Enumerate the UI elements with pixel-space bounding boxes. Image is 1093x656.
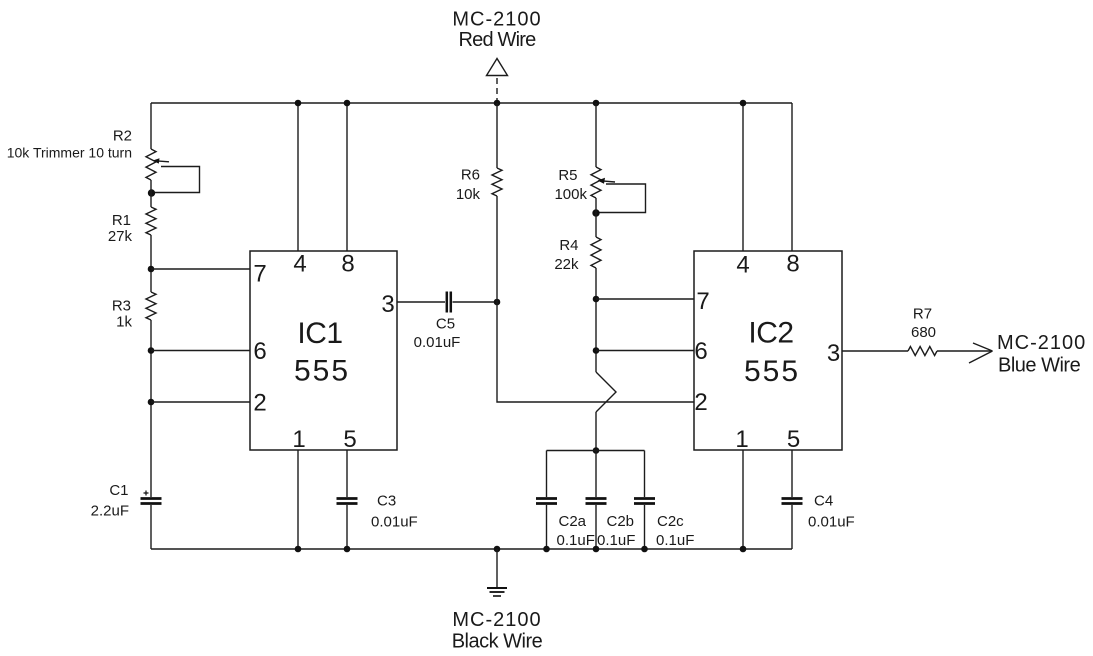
svg-text:R4: R4 — [559, 237, 578, 254]
wire IC1 pin 5 to C3 — [346, 450, 348, 497]
wire IC2 pin 6 — [596, 350, 694, 352]
wire IC1 pin 4 to rail — [297, 103, 299, 251]
svg-text:8: 8 — [786, 251, 799, 278]
node IC1 pin2 junction — [148, 399, 155, 406]
node ground rail C2a — [543, 546, 550, 553]
wire crossover hop over pin2 net — [596, 372, 616, 412]
R5 wiper loop wire — [598, 184, 646, 213]
wire IC2 pin 8 to rail corner — [791, 103, 793, 251]
node R5 wiper junction — [592, 209, 599, 216]
svg-text:C5: C5 — [436, 316, 455, 333]
wire C2a branch top — [546, 451, 548, 498]
node R2 wiper junction — [148, 189, 155, 196]
wire R5 to R4 — [595, 198, 597, 237]
svg-text:1: 1 — [292, 426, 305, 453]
wire top power rail — [151, 102, 792, 104]
wire C2b branch top — [595, 451, 597, 498]
svg-text:Blue Wire: Blue Wire — [998, 355, 1081, 377]
node ground rail ground stem — [494, 546, 501, 553]
resistor R1 — [146, 207, 156, 235]
svg-text:R7: R7 — [913, 306, 932, 323]
output arrow head — [969, 343, 993, 363]
svg-text:C1: C1 — [109, 482, 128, 499]
svg-text:0.1uF: 0.1uF — [557, 532, 595, 549]
capacitor C2b — [586, 499, 607, 504]
svg-text:2: 2 — [253, 390, 266, 417]
wire IC2 pin 3 to R7 — [842, 350, 908, 352]
R2 wiper loop wire — [153, 167, 200, 193]
wire IC2 pin 5 to C4 — [791, 450, 793, 497]
svg-text:5: 5 — [343, 426, 356, 453]
C1 polarity plus sign — [144, 491, 149, 496]
svg-text:4: 4 — [736, 252, 749, 279]
node ground rail IC2 pin1 — [740, 546, 747, 553]
wire left column top (rail to R2) — [150, 103, 152, 149]
wire C2c to ground rail — [644, 505, 646, 549]
svg-text:R3: R3 — [112, 298, 131, 315]
wire rail to R6 — [496, 103, 498, 168]
svg-text:0.01uF: 0.01uF — [808, 514, 855, 531]
wire C5 to node — [453, 301, 498, 303]
resistor R3 — [146, 292, 156, 320]
resistor R4 — [591, 237, 601, 268]
node rail R5 column — [593, 100, 600, 107]
svg-text:27k: 27k — [108, 228, 133, 245]
ground symbol — [487, 549, 507, 596]
wire dashed from power symbol to rail — [496, 78, 498, 103]
node rail IC1 pin4 — [295, 100, 302, 107]
wire C1 to bottom rail — [150, 505, 152, 549]
svg-text:555: 555 — [744, 355, 800, 388]
node ground rail C3 — [344, 546, 351, 553]
svg-text:22k: 22k — [554, 256, 579, 273]
svg-text:4: 4 — [293, 251, 306, 278]
R2 wiper arrow — [153, 158, 170, 163]
wire rail to R5 — [595, 103, 597, 167]
svg-text:R6: R6 — [461, 167, 480, 184]
capacitor C1 — [141, 499, 162, 504]
svg-text:100k: 100k — [554, 186, 587, 203]
wire IC1 pin 7 — [151, 268, 250, 270]
svg-text:10k Trimmer 10 turn: 10k Trimmer 10 turn — [7, 145, 132, 161]
svg-text:R1: R1 — [112, 212, 131, 229]
node C5 / R6 column — [494, 299, 501, 306]
svg-text:6: 6 — [253, 338, 266, 365]
capacitor C2a — [536, 499, 557, 504]
resistor R7 — [908, 347, 937, 356]
svg-text:1k: 1k — [116, 314, 132, 331]
svg-text:IC2: IC2 — [748, 317, 793, 350]
svg-text:7: 7 — [696, 288, 709, 315]
wire IC1 pin 1 to ground rail — [297, 450, 299, 549]
svg-text:0.1uF: 0.1uF — [656, 532, 694, 549]
node ground rail C2b — [593, 546, 600, 553]
wire R3 to C1 — [150, 320, 152, 497]
IC2 box — [694, 251, 842, 450]
node rail IC2 pin4 — [740, 100, 747, 107]
svg-text:Black Wire: Black Wire — [452, 631, 543, 653]
capacitor C3 — [337, 499, 358, 504]
IC1 box — [250, 251, 397, 450]
resistor R2 (trimmer) — [146, 149, 156, 180]
svg-text:MC-2100: MC-2100 — [452, 609, 541, 631]
capacitor C4 — [782, 499, 803, 504]
R5 wiper arrow — [598, 178, 616, 184]
node IC1 pin7 junction — [148, 266, 155, 273]
wire IC2 pin 7 — [596, 298, 694, 300]
output label MC-2100 Blue Wire — [997, 332, 1086, 377]
resistor R5 (trimmer) — [591, 167, 601, 198]
node IC1 pin6 junction — [148, 347, 155, 354]
svg-text:0.01uF: 0.01uF — [371, 514, 418, 531]
node rail red wire — [494, 100, 501, 107]
node IC2 pin6 junction — [593, 347, 600, 354]
svg-text:Red Wire: Red Wire — [459, 29, 537, 51]
power label MC-2100 Red Wire — [452, 9, 541, 52]
svg-text:2.2uF: 2.2uF — [91, 503, 129, 520]
wire IC1 pin 6 — [151, 350, 250, 352]
wire crossover to C2 bus — [595, 412, 597, 451]
resistor R6 — [492, 168, 502, 196]
svg-text:6: 6 — [694, 338, 707, 365]
svg-text:8: 8 — [341, 251, 354, 278]
wire IC2 pin 4 to rail — [742, 103, 744, 251]
ground label MC-2100 Black Wire — [452, 609, 543, 653]
svg-text:5: 5 — [787, 426, 800, 453]
wire IC1 pin 8 to rail — [346, 103, 348, 251]
svg-text:1: 1 — [735, 426, 748, 453]
svg-text:R2: R2 — [113, 128, 132, 145]
wire IC2 pin 1 to ground rail — [742, 450, 744, 549]
svg-text:MC-2100: MC-2100 — [997, 332, 1086, 354]
wire IC1 pin 2 — [151, 401, 250, 403]
svg-text:680: 680 — [911, 324, 936, 341]
wire C2b to ground rail — [595, 505, 597, 549]
svg-text:C3: C3 — [377, 493, 396, 510]
node ground rail IC1 pin1 — [295, 546, 302, 553]
wire R6 to C5 node and down to IC2 pin2 — [497, 196, 694, 402]
svg-text:C4: C4 — [814, 493, 833, 510]
capacitor C5 — [447, 292, 451, 313]
wire C2 bus — [547, 450, 645, 452]
svg-text:C2b: C2b — [607, 513, 635, 530]
svg-text:3: 3 — [827, 340, 840, 367]
wire C3 to ground rail — [346, 505, 348, 549]
svg-text:555: 555 — [294, 355, 350, 388]
capacitor C2c — [634, 499, 655, 504]
node IC2 pin7 junction — [593, 296, 600, 303]
svg-text:MC-2100: MC-2100 — [452, 9, 541, 31]
svg-text:10k: 10k — [456, 186, 481, 203]
svg-text:IC1: IC1 — [297, 317, 342, 350]
node rail IC1 pin8 — [344, 100, 351, 107]
svg-text:C2c: C2c — [657, 513, 684, 530]
node C2 bus junction — [593, 447, 600, 454]
power symbol V+ arrow — [487, 59, 508, 76]
svg-text:0.01uF: 0.01uF — [414, 334, 461, 351]
wire bottom ground rail — [151, 548, 792, 550]
svg-text:3: 3 — [381, 291, 394, 318]
wire R7 to output arrow — [937, 350, 991, 352]
node ground rail C2c — [641, 546, 648, 553]
svg-text:0.1uF: 0.1uF — [597, 532, 635, 549]
svg-text:7: 7 — [253, 261, 266, 288]
wire C2a to ground rail — [546, 505, 548, 549]
wire IC1 pin 3 to C5 — [397, 301, 445, 303]
wire C2c branch top — [644, 451, 646, 498]
wire R1 to R3 — [150, 235, 152, 292]
wire R4 down to crossover — [595, 268, 597, 372]
wire C4 to ground rail end — [791, 505, 793, 549]
svg-text:R5: R5 — [558, 167, 577, 184]
wire R2 to R1 — [150, 180, 152, 207]
svg-text:2: 2 — [694, 389, 707, 416]
svg-text:C2a: C2a — [559, 513, 587, 530]
